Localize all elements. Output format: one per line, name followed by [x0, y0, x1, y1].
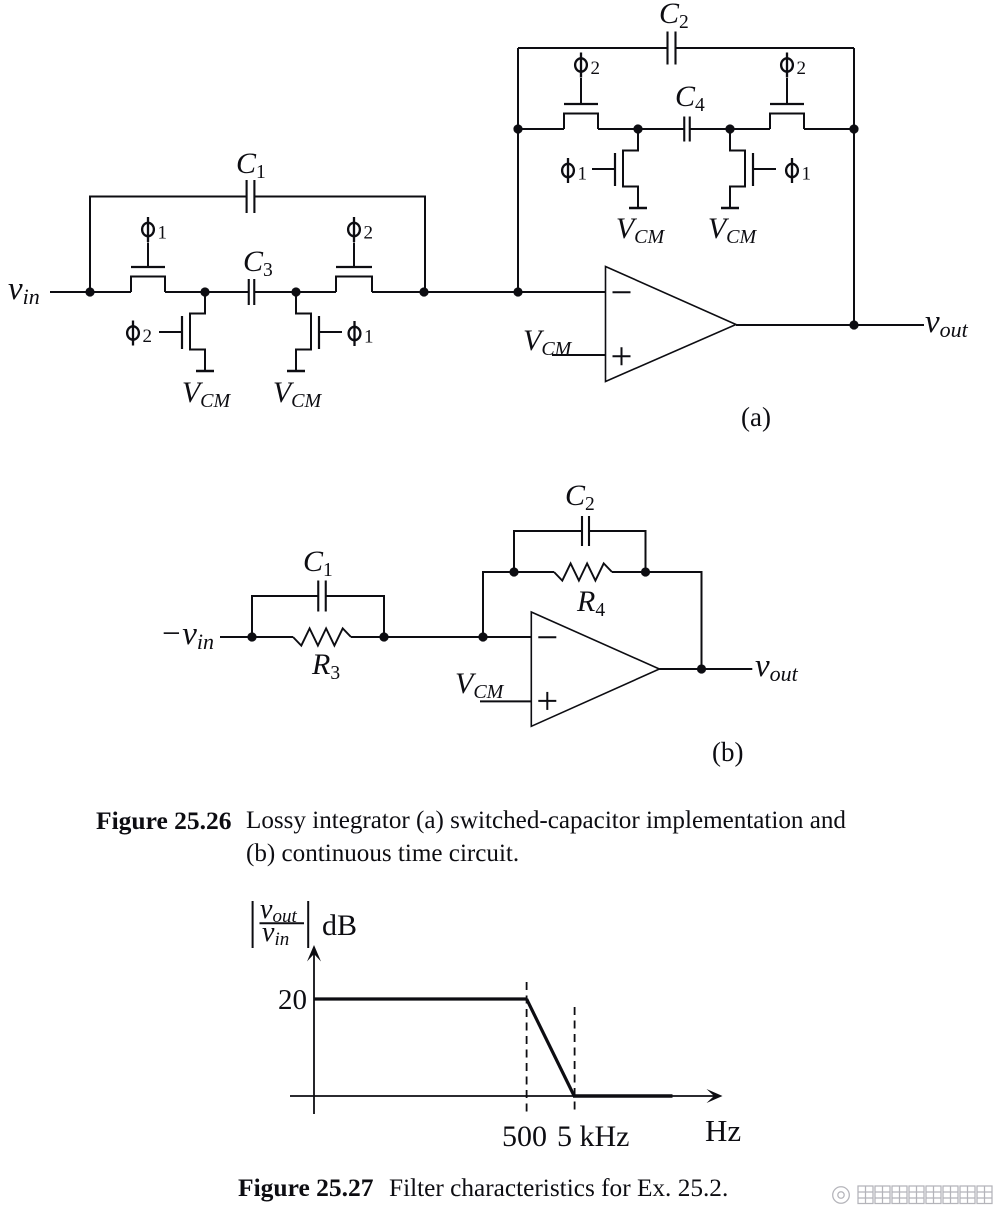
svg-text:(b) continuous time circuit.: (b) continuous time circuit. — [246, 840, 519, 867]
svg-text:1: 1 — [364, 327, 374, 348]
svg-text:(a): (a) — [741, 402, 771, 432]
svg-text:2: 2 — [797, 58, 807, 79]
svg-text:5 kHz: 5 kHz — [557, 1120, 629, 1153]
svg-text:Figure 25.26: Figure 25.26 — [96, 806, 232, 835]
svg-text:Filter characteristics for Ex.: Filter characteristics for Ex. 25.2. — [389, 1174, 728, 1202]
svg-text:2: 2 — [143, 326, 153, 347]
svg-text:20: 20 — [278, 984, 307, 1016]
svg-text:(b): (b) — [712, 737, 743, 767]
svg-text:Hz: Hz — [705, 1113, 741, 1148]
svg-text:500: 500 — [502, 1120, 547, 1153]
svg-text:1: 1 — [802, 164, 812, 185]
svg-text:Figure 25.27: Figure 25.27 — [238, 1173, 374, 1202]
svg-text:2: 2 — [364, 223, 374, 244]
svg-text:1: 1 — [158, 223, 168, 244]
svg-text:Lossy integrator (a) switched-: Lossy integrator (a) switched-capacitor … — [246, 807, 846, 834]
svg-text:2: 2 — [591, 58, 601, 79]
svg-text:1: 1 — [578, 164, 588, 185]
svg-text:dB: dB — [322, 909, 357, 942]
